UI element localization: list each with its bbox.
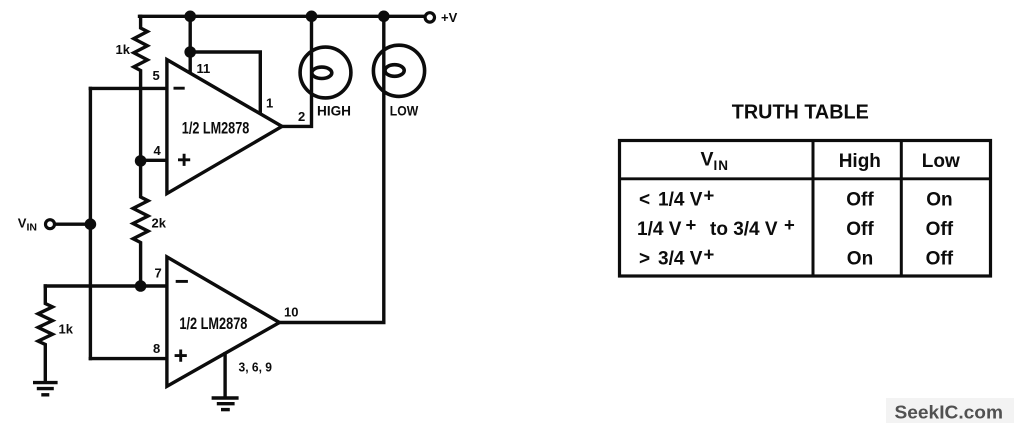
junction node VIN — [85, 218, 97, 230]
svg-text:VIN: VIN — [701, 149, 730, 173]
resistor R3 1k (node B to ground) — [38, 286, 52, 382]
wire U2 ground stub pins 3,6,9 — [223, 354, 226, 397]
op-amp U1 minus input sign — [174, 87, 185, 90]
terminal VIN — [46, 220, 55, 229]
terminal +V — [425, 13, 434, 22]
svg-text:TRUTH TABLE: TRUTH TABLE — [732, 100, 869, 123]
junction node on rail at LOW lamp — [378, 10, 390, 22]
svg-text:5: 5 — [153, 68, 160, 83]
svg-text:1/2 LM2878: 1/2 LM2878 — [182, 120, 250, 138]
svg-text:<1/4 V+: <1/4 V+ — [639, 185, 715, 211]
svg-text:4: 4 — [154, 143, 162, 158]
op-amp U1 plus input sign — [178, 154, 190, 166]
svg-text:>3/4 V+: >3/4 V+ — [639, 244, 715, 270]
svg-text:11: 11 — [197, 61, 211, 76]
junction node A (pin 4 divider tap) — [135, 155, 147, 167]
op-amp U2 plus input sign — [175, 350, 187, 362]
svg-text:2: 2 — [298, 109, 305, 124]
ground (below R3) — [33, 383, 58, 395]
wire U1 output to HIGH lamp and +V rail — [282, 16, 312, 126]
junction node pin11/pin1 loop — [184, 46, 196, 58]
svg-text:Off: Off — [846, 190, 874, 211]
wire pin 4 input (node A to pin 4 of U1) — [141, 159, 166, 162]
wire pin 11 supply lead — [188, 16, 191, 73]
svg-text:1k: 1k — [116, 42, 131, 57]
wire VIN vertical bus — [89, 88, 92, 358]
svg-text:On: On — [926, 190, 952, 211]
svg-text:Off: Off — [926, 219, 954, 240]
svg-text:2k: 2k — [152, 216, 167, 231]
svg-text:Low: Low — [922, 151, 960, 172]
wire pin 5 input (VIN to pin 5 of U1) — [90, 87, 165, 90]
wire VIN terminal lead — [55, 222, 90, 225]
wire pin 1 bootstrap loop — [190, 52, 260, 113]
wire top +V rail — [140, 15, 424, 18]
svg-text:SeekIC.com: SeekIC.com — [895, 402, 1004, 423]
op-amp U2 1/2 LM2878 — [167, 257, 280, 386]
ground (below U2) — [212, 398, 239, 410]
junction node on rail at HIGH lamp — [306, 10, 318, 22]
junction node B (pin 7 divider tap) — [135, 280, 147, 292]
svg-text:LOW: LOW — [390, 104, 419, 119]
op-amp U2 minus input sign — [176, 280, 188, 283]
svg-text:1/4 V+to 3/4 V+: 1/4 V+to 3/4 V+ — [637, 214, 795, 240]
svg-text:Off: Off — [846, 219, 874, 240]
watermark SeekIC.com — [886, 398, 1014, 423]
truth table frame — [620, 141, 991, 277]
svg-text:VIN: VIN — [18, 215, 37, 233]
resistor R1 1k (from +V rail to node A) — [134, 16, 148, 161]
svg-text:HIGH: HIGH — [317, 104, 351, 119]
svg-text:1: 1 — [266, 95, 273, 110]
wire U2 output to LOW lamp and +V rail — [280, 16, 384, 322]
svg-text:1/2 LM2878: 1/2 LM2878 — [179, 315, 247, 333]
svg-text:On: On — [847, 249, 873, 270]
junction node on rail at pin11 branch — [184, 10, 196, 22]
wire pin 8 input (VIN to pin 8 of U2) — [90, 357, 165, 360]
resistor R2 2k (node A to node B) — [133, 161, 148, 286]
svg-text:1k: 1k — [59, 321, 74, 336]
svg-text:10: 10 — [284, 304, 298, 319]
svg-text:7: 7 — [155, 266, 162, 281]
svg-text:Off: Off — [926, 249, 954, 270]
svg-text:+V: +V — [441, 10, 458, 25]
svg-text:3, 6, 9: 3, 6, 9 — [239, 360, 273, 375]
op-amp U1 1/2 LM2878 — [167, 60, 282, 194]
svg-text:High: High — [839, 151, 881, 172]
lamp LOW — [373, 45, 424, 96]
svg-text:8: 8 — [153, 341, 160, 356]
lamp HIGH — [300, 47, 351, 98]
wire pin 7 input (node B to pin 7 of U2) — [45, 284, 165, 287]
